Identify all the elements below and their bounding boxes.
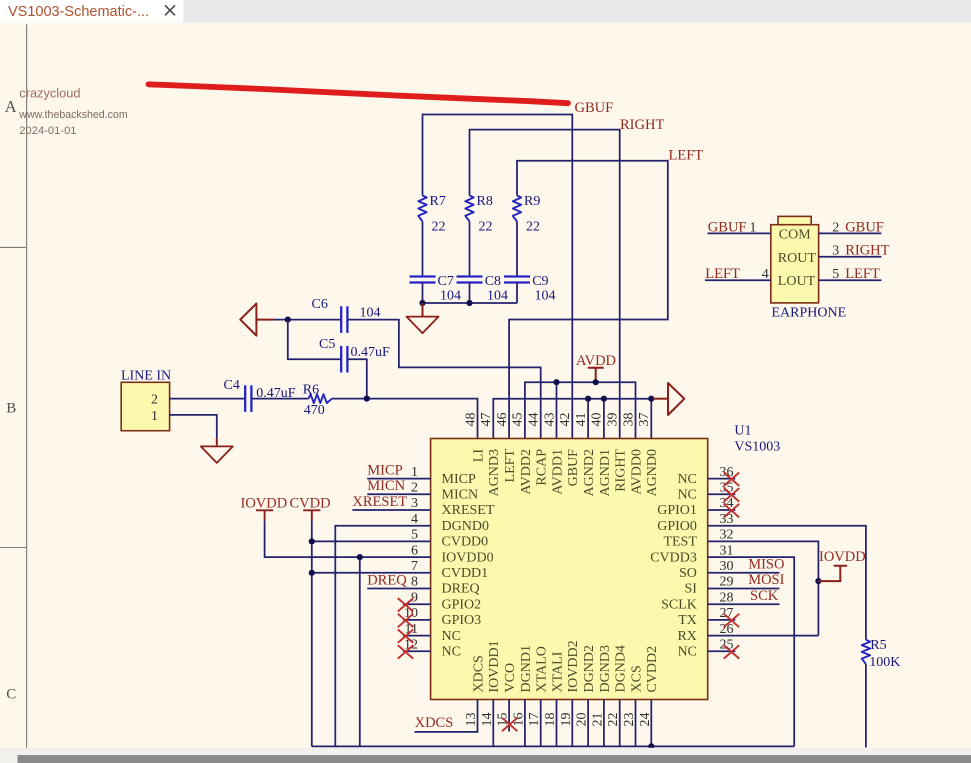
wire pin6 IOVDD0 to IOVDD symbol <box>265 520 431 557</box>
svg-text:C7: C7 <box>438 274 454 289</box>
horizontal scrollbar thumb <box>18 755 971 763</box>
svg-text:MICN: MICN <box>442 488 479 503</box>
svg-text:GPIO2: GPIO2 <box>442 597 482 612</box>
svg-text:1: 1 <box>411 465 418 480</box>
svg-text:MISO: MISO <box>748 556 784 572</box>
svg-text:31: 31 <box>720 543 734 558</box>
resistor R5 <box>862 640 870 664</box>
wire GBUF to pin1 <box>708 232 771 234</box>
svg-text:22: 22 <box>479 220 493 235</box>
svg-text:4: 4 <box>411 512 418 527</box>
svg-text:R9: R9 <box>524 194 540 209</box>
junction pin43/AVDD <box>553 379 559 385</box>
port stub (red) <box>653 398 668 400</box>
wire pin 23 to bottom rail <box>635 700 637 747</box>
svg-text:GBUF: GBUF <box>566 449 581 487</box>
svg-text:C9: C9 <box>532 274 548 289</box>
svg-text:SO: SO <box>679 566 697 581</box>
junction IOVDD (right) <box>815 578 821 584</box>
svg-text:TX: TX <box>678 613 697 628</box>
capacitor C8 <box>457 275 483 277</box>
wire GBUF net: pin42 up, across, down to R7 <box>423 115 573 439</box>
junction pin41 <box>585 396 591 402</box>
junction AVDD stem <box>593 379 599 385</box>
svg-text:MICN: MICN <box>367 478 405 494</box>
port arrow AGND (left) <box>240 304 256 336</box>
no-connect X pin 27 <box>724 614 739 627</box>
op-amp/DSP IC U1 VS1003 body <box>431 439 708 700</box>
ground stem <box>216 438 218 446</box>
svg-text:C8: C8 <box>485 274 501 289</box>
wire CVDD riser down to bottom rail <box>311 520 313 746</box>
wire LEFT net: pin46 up, across, down, across to R9 <box>509 161 668 439</box>
capacitor C6 <box>340 306 342 333</box>
svg-text:2: 2 <box>411 481 418 496</box>
U1 pin 15 stub (n.c.) <box>508 700 510 732</box>
svg-text:MICP: MICP <box>367 462 402 478</box>
svg-text:AGND0: AGND0 <box>645 449 660 496</box>
svg-text:R8: R8 <box>477 194 493 209</box>
svg-text:XCS: XCS <box>629 665 644 692</box>
wire pin37 to AGND rail <box>650 399 652 439</box>
svg-text:C: C <box>6 687 16 703</box>
svg-text:RCAP: RCAP <box>535 449 550 486</box>
svg-text:TEST: TEST <box>663 535 697 550</box>
no-connect X pin 15 <box>502 718 517 731</box>
svg-text:GPIO1: GPIO1 <box>657 503 697 518</box>
junction R6/C5/pin48 <box>364 396 370 402</box>
svg-text:CVDD0: CVDD0 <box>442 535 489 550</box>
svg-text:25: 25 <box>720 638 734 653</box>
wire MICN to pin2 <box>367 493 430 495</box>
svg-text:R7: R7 <box>430 194 446 209</box>
frame tick A/B <box>0 246 27 248</box>
junction pin24/rail <box>648 743 654 749</box>
capacitor C9 <box>504 275 530 277</box>
wire XRESET to pin3 <box>352 509 430 511</box>
svg-text:LI: LI <box>471 449 486 463</box>
svg-text:42: 42 <box>558 413 573 427</box>
wire junction down to C5 <box>288 320 341 360</box>
svg-text:MICP: MICP <box>442 472 476 487</box>
U1 pin 35 stub (n.c.) <box>708 493 736 495</box>
svg-text:CVDD1: CVDD1 <box>442 566 489 581</box>
power symbol AVDD <box>588 368 604 382</box>
svg-text:ROUT: ROUT <box>778 251 817 266</box>
U1 pin 11 stub (n.c.) <box>403 635 431 637</box>
svg-text:IOVDD2: IOVDD2 <box>566 640 581 692</box>
sheet frame vertical line <box>26 24 28 747</box>
svg-text:DREQ: DREQ <box>442 582 480 597</box>
svg-text:XDCS: XDCS <box>415 715 454 731</box>
svg-text:45: 45 <box>511 413 526 427</box>
U1 pin 36 stub (n.c.) <box>708 478 736 480</box>
wire pin 22 to bottom rail <box>619 700 621 747</box>
svg-text:CVDD2: CVDD2 <box>645 646 660 693</box>
svg-text:28: 28 <box>720 590 734 605</box>
svg-text:NC: NC <box>442 645 461 660</box>
svg-text:2024-01-01: 2024-01-01 <box>19 125 76 137</box>
svg-text:DREQ: DREQ <box>367 572 407 588</box>
wire pin13 XDCS to label <box>415 700 478 732</box>
svg-text:RX: RX <box>677 629 696 644</box>
browser tab bar background <box>0 0 971 23</box>
svg-text:104: 104 <box>535 289 556 304</box>
wire pin43 to AVDD rail <box>556 382 558 438</box>
port stub (red) <box>256 319 273 321</box>
svg-text:CVDD3: CVDD3 <box>650 550 697 565</box>
wire C4 to R6 <box>251 398 308 400</box>
svg-text:SI: SI <box>684 582 697 597</box>
svg-text:C5: C5 <box>319 337 335 352</box>
wire pin26 RX to IOVDD node <box>708 635 819 637</box>
capacitor C7 <box>410 275 436 277</box>
svg-text:22: 22 <box>526 220 540 235</box>
power symbol IOVDD (right) <box>818 566 847 581</box>
wire C6 to pin44 (RCAP) <box>347 320 540 439</box>
svg-text:IOVDD1: IOVDD1 <box>487 640 502 692</box>
no-connect X pin 34 <box>724 504 739 517</box>
junction C8/ground <box>466 300 472 306</box>
wire R6 to pin48 (LI) <box>332 399 478 439</box>
U1 pin 25 stub (n.c.) <box>708 650 736 652</box>
wire AGND rail: pin47 across to arrow <box>493 399 652 439</box>
wire pin 19 to bottom rail <box>571 700 573 747</box>
svg-text:XTALO: XTALO <box>535 646 550 692</box>
svg-text:IOVDD: IOVDD <box>241 496 288 512</box>
svg-text:27: 27 <box>720 606 734 621</box>
power symbol CVDD <box>303 510 320 520</box>
wire pin 21 to bottom rail <box>603 700 605 747</box>
capacitor C5 <box>340 346 342 373</box>
svg-text:43: 43 <box>542 413 557 427</box>
svg-text:47: 47 <box>479 413 494 427</box>
svg-text:XRESET: XRESET <box>352 494 407 510</box>
svg-text:AVDD1: AVDD1 <box>550 449 565 495</box>
ground stem <box>422 303 424 317</box>
red marker annotation line <box>149 84 569 103</box>
svg-text:XRESET: XRESET <box>442 503 495 518</box>
junction CVDD/pin5 <box>309 538 315 544</box>
svg-text:0.47uF: 0.47uF <box>351 345 391 360</box>
wire port to C6 <box>273 319 341 321</box>
svg-text:NC: NC <box>677 472 696 487</box>
svg-text:104: 104 <box>440 289 461 304</box>
svg-text:NC: NC <box>442 629 461 644</box>
wire pin 17 to bottom rail <box>540 700 542 747</box>
svg-text:1: 1 <box>151 409 158 424</box>
svg-text:AGND2: AGND2 <box>582 449 597 496</box>
junction IOVDD branch <box>357 554 363 560</box>
wire pin30 SO / MISO <box>708 572 780 574</box>
wire R9 to C9 <box>516 222 518 277</box>
svg-text:GBUF: GBUF <box>575 100 614 116</box>
svg-text:LOUT: LOUT <box>778 274 816 289</box>
svg-text:29: 29 <box>720 575 734 590</box>
svg-text:NC: NC <box>677 645 696 660</box>
svg-text:DGND0: DGND0 <box>442 519 489 534</box>
svg-text:7: 7 <box>411 559 418 574</box>
wire LINE IN pin1 to ground <box>170 415 217 439</box>
wire LEFT to pin4 <box>705 279 771 281</box>
svg-text:VCO: VCO <box>503 663 518 693</box>
connector EARPHONE body <box>771 225 819 303</box>
wire pin14 to bottom rail <box>492 700 494 747</box>
wire C9 to ground rail <box>516 283 518 304</box>
svg-text:VS1003-Schematic-...: VS1003-Schematic-... <box>8 4 149 20</box>
wire pin 24 to bottom rail <box>650 700 652 747</box>
wire pin5 LEFT <box>819 279 882 281</box>
svg-text:DGND3: DGND3 <box>598 645 613 692</box>
svg-text:48: 48 <box>463 413 478 427</box>
U1 pin 10 stub (n.c.) <box>403 619 431 621</box>
svg-text:AVDD0: AVDD0 <box>629 449 644 495</box>
no-connect X pin 36 <box>724 473 739 486</box>
svg-text:VS1003: VS1003 <box>734 440 780 455</box>
wire C7 to ground rail <box>422 283 424 304</box>
svg-text:100K: 100K <box>869 655 900 670</box>
svg-text:IOVDD0: IOVDD0 <box>442 550 494 565</box>
wire pin28 SCLK / SCK <box>708 603 780 605</box>
svg-text:46: 46 <box>495 413 510 427</box>
svg-text:36: 36 <box>720 465 734 480</box>
wire MICP to pin1 <box>367 478 430 480</box>
junction pin37 <box>648 396 654 402</box>
svg-text:C6: C6 <box>312 297 328 312</box>
resistor R6 <box>309 394 332 403</box>
resistor R9 <box>513 196 521 222</box>
no-connect X pin 11 <box>398 630 413 643</box>
EARPHONE top tab <box>778 216 811 224</box>
frame tick B/C <box>0 547 27 549</box>
wire pin7 CVDD1 to CVDD riser <box>312 572 431 574</box>
junction CVDD/pin7 <box>309 570 315 576</box>
U1 pin 9 stub (n.c.) <box>403 603 431 605</box>
svg-text:U1: U1 <box>734 424 751 439</box>
svg-text:22: 22 <box>432 220 446 235</box>
ground rail under C7/C8/C9 <box>423 302 518 304</box>
svg-text:44: 44 <box>527 413 542 427</box>
wire AVDD rail: pin45 to pin38 <box>525 382 636 438</box>
wire pin3 RIGHT <box>819 256 882 258</box>
wire pin32 TEST to IOVDD node <box>708 541 819 635</box>
svg-text:GPIO0: GPIO0 <box>657 519 697 534</box>
wire pin29 SI / MOSI <box>708 588 780 590</box>
wire pin 20 to bottom rail <box>587 700 589 747</box>
active tab <box>0 0 183 23</box>
svg-text:104: 104 <box>360 306 381 321</box>
svg-text:DGND1: DGND1 <box>519 645 534 692</box>
wire pin33 GPIO0 to R5 <box>708 526 866 640</box>
connector LINE IN body <box>121 382 169 430</box>
svg-text:NC: NC <box>677 488 696 503</box>
svg-text:COM: COM <box>779 227 811 242</box>
svg-text:GPIO3: GPIO3 <box>442 613 482 628</box>
no-connect X pin 9 <box>398 598 413 611</box>
svg-text:DGND4: DGND4 <box>614 645 629 692</box>
svg-text:AGND3: AGND3 <box>487 449 502 496</box>
resistor R8 <box>465 196 473 222</box>
U1 pin 12 stub (n.c.) <box>403 650 431 652</box>
svg-text:40: 40 <box>590 413 605 427</box>
svg-text:2: 2 <box>151 392 158 407</box>
svg-text:3: 3 <box>411 496 418 511</box>
svg-text:SCK: SCK <box>750 588 779 604</box>
wire pin2 GBUF <box>819 232 882 234</box>
junction pin40 <box>601 396 607 402</box>
wire RIGHT net: pin39 up, across, down to R8 <box>470 130 620 439</box>
svg-text:R5: R5 <box>870 638 886 653</box>
svg-text:SCLK: SCLK <box>661 597 697 612</box>
svg-text:CVDD: CVDD <box>290 496 331 512</box>
svg-text:DGND2: DGND2 <box>582 645 597 692</box>
resistor R7 <box>418 196 426 222</box>
wire C8 to ground rail <box>469 283 471 304</box>
wire pin 16 to bottom rail <box>524 700 526 747</box>
svg-text:470: 470 <box>304 403 325 418</box>
svg-text:38: 38 <box>621 413 636 427</box>
no-connect X pin 25 <box>724 645 739 658</box>
ground symbol (C7/C8/C9) <box>407 317 439 334</box>
svg-text:B: B <box>6 401 16 417</box>
wire R7 to C7 <box>422 222 424 277</box>
horizontal scrollbar track <box>0 748 971 763</box>
svg-text:MOSI: MOSI <box>748 572 784 588</box>
svg-text:XDCS: XDCS <box>471 655 486 692</box>
svg-text:LINE IN: LINE IN <box>121 369 171 384</box>
svg-text:C4: C4 <box>224 378 240 393</box>
svg-text:EARPHONE: EARPHONE <box>772 306 847 321</box>
svg-text:RIGHT: RIGHT <box>614 449 629 492</box>
U1 pin 27 stub (n.c.) <box>708 619 736 621</box>
no-connect X pin 12 <box>398 645 413 658</box>
svg-text:39: 39 <box>606 413 621 427</box>
wire R8 to C8 <box>469 222 471 277</box>
tab close button <box>165 5 175 15</box>
svg-text:AGND1: AGND1 <box>598 449 613 496</box>
svg-text:30: 30 <box>720 559 734 574</box>
svg-text:crazycloud: crazycloud <box>19 85 80 100</box>
svg-text:37: 37 <box>637 413 652 427</box>
junction C7/ground <box>419 300 425 306</box>
svg-text:6: 6 <box>411 543 418 558</box>
svg-text:R6: R6 <box>303 383 319 398</box>
svg-text:RIGHT: RIGHT <box>620 117 664 133</box>
power symbol IOVDD (left) <box>256 510 273 520</box>
wire R5 bottom <box>865 664 867 748</box>
ground symbol (LINE IN) <box>201 446 233 463</box>
port arrow AGND (right) <box>668 383 684 415</box>
wire pin4 DGND0 down to bottom rail <box>335 526 430 747</box>
bottom ground/supply rail <box>312 745 794 747</box>
svg-text:A: A <box>5 97 17 116</box>
no-connect X pin 10 <box>398 614 413 627</box>
wire IOVDD branch down to bottom rail <box>359 557 361 746</box>
svg-text:LEFT: LEFT <box>669 148 704 164</box>
wire DREQ to pin8 <box>367 588 430 590</box>
wire C5 to line-in node <box>347 359 366 398</box>
wire pin 18 to bottom rail <box>556 700 558 747</box>
wire pin41 to AGND rail <box>587 399 589 439</box>
capacitor C4 <box>244 385 246 412</box>
svg-text:AVDD2: AVDD2 <box>519 449 534 495</box>
wire pin5 CVDD0 to CVDD riser <box>312 540 431 542</box>
svg-text:www.thebackshed.com: www.thebackshed.com <box>18 109 128 121</box>
svg-text:LEFT: LEFT <box>503 449 518 483</box>
svg-text:8: 8 <box>411 575 418 590</box>
svg-text:32: 32 <box>720 528 734 543</box>
wire pin40 to AGND rail <box>603 399 605 439</box>
svg-text:41: 41 <box>574 413 589 427</box>
svg-text:5: 5 <box>411 528 418 543</box>
wire pin31 CVDD3 to bottom rail riser <box>708 557 795 746</box>
no-connect X pin 35 <box>724 488 739 501</box>
svg-text:104: 104 <box>487 289 508 304</box>
junction C5/C6 node <box>285 317 291 323</box>
svg-text:IOVDD: IOVDD <box>819 549 866 565</box>
svg-text:XTALI: XTALI <box>550 651 565 692</box>
U1 pin 34 stub (n.c.) <box>708 509 736 511</box>
wire LINE IN pin2 to C4 <box>170 398 246 400</box>
